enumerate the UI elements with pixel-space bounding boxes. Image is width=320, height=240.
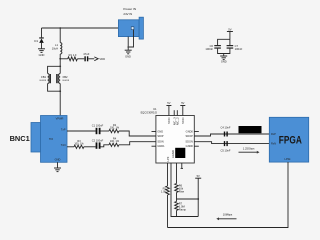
svg-text:5V: 5V xyxy=(181,101,184,105)
wire R4 to U1 GND1 xyxy=(119,142,156,145)
svg-text:100nF: 100nF xyxy=(235,47,243,51)
wire connector pins to ground xyxy=(127,30,133,51)
wire C1 to R2 xyxy=(101,130,110,132)
U1 pin NC_2 xyxy=(176,110,180,125)
capacitor C2 xyxy=(84,138,104,148)
svg-text:U1: U1 xyxy=(153,107,157,111)
svg-text:TIO: TIO xyxy=(49,137,53,141)
svg-text:GND: GND xyxy=(125,55,131,59)
wire to BNC1 VPWR pin xyxy=(59,91,61,115)
ground below BNC1 xyxy=(54,168,61,172)
svg-text:1.25Gbps: 1.25Gbps xyxy=(243,147,255,151)
wire loopback rail to FPGA xyxy=(168,162,289,228)
connector BNC1 xyxy=(10,116,67,163)
U1 bottom NC stub xyxy=(181,163,183,168)
svg-text:BNC1: BNC1 xyxy=(10,134,30,143)
svg-text:24V IN: 24V IN xyxy=(123,12,132,16)
svg-text:VPWR: VPWR xyxy=(56,116,64,120)
svg-text:47uF: 47uF xyxy=(83,52,89,56)
svg-text:FB1: FB1 xyxy=(41,75,46,79)
wire BNC ground xyxy=(57,162,59,168)
svg-text:SDOP: SDOP xyxy=(186,134,194,138)
svg-text:SDON: SDON xyxy=(185,140,193,144)
connector J1 Power IN xyxy=(118,7,143,39)
wire decoupling top xyxy=(218,39,230,45)
U1 thermal pad AGND xyxy=(166,148,185,162)
ferrite bead FB1 xyxy=(40,65,61,91)
svg-text:GND: GND xyxy=(55,158,61,162)
svg-text:100, 1%: 100, 1% xyxy=(74,143,84,146)
U1 pin VCC top right xyxy=(180,101,185,124)
U1 left pins xyxy=(152,129,166,148)
svg-text:5V: 5V xyxy=(228,27,231,31)
svg-text:SDIP: SDIP xyxy=(157,134,163,138)
capacitor C4 xyxy=(221,125,231,136)
wire R2 to U1 SDIP xyxy=(119,131,156,136)
svg-text:TxN: TxN xyxy=(61,143,66,147)
svg-text:GND: GND xyxy=(157,129,163,133)
arrow 1.25Gbps xyxy=(239,147,260,154)
svg-text:SDIN: SDIN xyxy=(157,140,163,144)
U1 pin NC_3 xyxy=(172,110,176,125)
resistor R1 xyxy=(60,53,77,61)
svg-text:10Mbps: 10Mbps xyxy=(223,213,233,217)
op-amp U1 EQCO30R5 body xyxy=(141,107,195,163)
svg-text:FB2: FB2 xyxy=(63,75,68,79)
svg-text:5V: 5V xyxy=(167,101,170,105)
svg-text:C4 10nF: C4 10nF xyxy=(221,125,231,129)
svg-text:R1 1.0: R1 1.0 xyxy=(69,53,77,57)
svg-text:VCC: VCC xyxy=(167,117,171,124)
ferrite bead FB2 xyxy=(57,66,70,92)
FPGA block xyxy=(269,117,308,162)
ground below decoupling pair xyxy=(220,56,227,64)
arrow 10Mbps xyxy=(216,213,236,221)
svg-text:GND: GND xyxy=(39,53,45,57)
svg-text:Power IN: Power IN xyxy=(123,7,136,11)
svg-text:Ramp: Ramp xyxy=(179,207,187,211)
resistor R7 Ramp xyxy=(175,199,187,217)
wire U1 SDON to FPGA xyxy=(194,142,269,144)
wire U1 SDOP to FPGA xyxy=(194,134,269,136)
svg-text:EQCO30R5.D: EQCO30R5.D xyxy=(141,111,158,115)
svg-text:100nF: 100nF xyxy=(205,47,213,51)
resistor R3 xyxy=(67,140,84,148)
wire TxP to C1 xyxy=(67,130,96,132)
svg-text:BLM18: BLM18 xyxy=(63,80,70,82)
U1 pin VCC top left xyxy=(166,101,171,124)
svg-text:LPF: LPF xyxy=(166,156,170,161)
node rise junction xyxy=(177,198,200,200)
inductor L1 xyxy=(52,28,62,66)
svg-text:VDD: VDD xyxy=(99,57,105,61)
node VDD flag xyxy=(94,57,105,61)
svg-text:1.0k: 1.0k xyxy=(161,189,167,193)
resistor R6 Rise xyxy=(175,163,185,199)
wire top rail from D1 node to Power IN connector xyxy=(42,27,119,29)
svg-text:BLM18: BLM18 xyxy=(40,80,47,82)
capacitor C6 xyxy=(205,44,221,51)
transmission line block xyxy=(239,126,262,133)
svg-text:5V: 5V xyxy=(197,174,200,178)
svg-text:GND: GND xyxy=(221,60,227,64)
capacitor C5 xyxy=(221,141,231,152)
node 5V supply flag for decoupling pair xyxy=(227,27,233,39)
svg-text:GND1: GND1 xyxy=(157,144,165,148)
svg-text:10uH: 10uH xyxy=(52,46,58,50)
wire decoupling bottom xyxy=(218,49,230,56)
svg-text:NC_2: NC_2 xyxy=(176,117,180,125)
capacitor C3 47uF xyxy=(77,52,94,61)
capacitor C7 xyxy=(227,44,243,51)
svg-text:GND0: GND0 xyxy=(186,129,194,133)
ground below Power IN xyxy=(125,50,132,58)
svg-text:100, 1%: 100, 1% xyxy=(110,126,120,129)
wire U1 pin to ramp bottom xyxy=(171,163,198,217)
resistor R4 xyxy=(101,137,120,147)
svg-text:Rise: Rise xyxy=(179,189,185,193)
node 5V flag below U1 xyxy=(195,174,201,217)
resistor R5 below U1 xyxy=(161,163,169,228)
svg-text:FPGA: FPGA xyxy=(279,134,302,146)
svg-text:VCC: VCC xyxy=(181,117,185,124)
svg-text:D1: D1 xyxy=(34,39,38,43)
ground below D1 xyxy=(38,49,45,57)
svg-text:AGND: AGND xyxy=(171,150,175,158)
U1 right pins xyxy=(185,129,198,148)
resistor R2 xyxy=(109,124,120,133)
svg-text:RxP: RxP xyxy=(271,132,276,136)
svg-text:C1 100nF: C1 100nF xyxy=(92,123,104,127)
svg-text:100, 1%: 100, 1% xyxy=(110,140,120,143)
svg-text:GND0: GND0 xyxy=(186,144,194,148)
capacitor C1 xyxy=(92,123,104,134)
svg-text:RxN: RxN xyxy=(271,142,276,146)
svg-text:C5 10nF: C5 10nF xyxy=(221,148,231,152)
svg-text:LPbk: LPbk xyxy=(285,157,292,161)
diode D1 xyxy=(34,28,43,49)
svg-text:TxP: TxP xyxy=(61,127,66,131)
svg-text:C2 100nF: C2 100nF xyxy=(92,138,104,142)
